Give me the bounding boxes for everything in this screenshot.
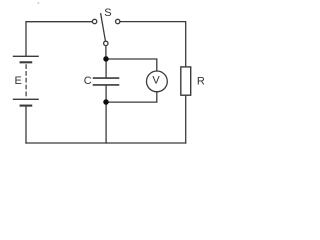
wire capacitor to node B <box>105 85 107 102</box>
wire node A to capacitor <box>105 59 107 78</box>
wire top-left segment <box>26 22 92 57</box>
wire right-bottom segment <box>185 95 187 143</box>
voltmeter V <box>147 71 168 92</box>
svg-text:S: S <box>104 7 111 19</box>
resistor R <box>181 67 191 95</box>
node A junction dot <box>103 56 109 62</box>
capacitor C <box>94 78 119 85</box>
svg-text:C: C <box>84 75 92 87</box>
svg-text:R: R <box>197 75 205 87</box>
wire bottom <box>26 142 186 144</box>
wire switch to node A <box>105 46 107 59</box>
wire left-bottom segment <box>25 106 27 143</box>
wire voltmeter bottom branch <box>106 92 157 102</box>
svg-text:V: V <box>152 74 160 86</box>
wire node B to bottom <box>105 102 107 143</box>
svg-text:E: E <box>15 75 22 87</box>
stray ink speck <box>38 3 40 4</box>
node B junction dot <box>103 99 109 105</box>
switch S <box>92 14 120 46</box>
wire voltmeter top branch <box>106 59 157 71</box>
battery E <box>14 56 39 105</box>
wire top-right segment <box>120 22 186 67</box>
